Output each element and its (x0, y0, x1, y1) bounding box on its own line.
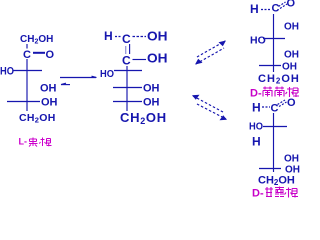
svg-text:HO: HO (250, 35, 266, 47)
svg-text:HO: HO (0, 66, 14, 78)
svg-text:L-: L- (19, 137, 28, 147)
svg-text:C: C (272, 3, 280, 15)
svg-text:C: C (122, 54, 131, 68)
svg-text:OH: OH (284, 22, 299, 33)
svg-text:C: C (271, 103, 279, 115)
svg-text:OH: OH (282, 62, 297, 73)
svg-text:H: H (252, 135, 261, 149)
svg-text:O: O (46, 49, 55, 61)
svg-text:OH: OH (147, 52, 168, 66)
svg-text:OH: OH (143, 83, 160, 95)
svg-text:OH: OH (143, 97, 160, 109)
svg-text:H: H (104, 29, 113, 43)
svg-text:HO: HO (249, 121, 263, 133)
svg-text:OH: OH (40, 83, 57, 95)
svg-text:O: O (287, 97, 296, 109)
svg-text:OH: OH (41, 97, 58, 109)
svg-text:H: H (250, 2, 259, 16)
svg-text:C: C (122, 32, 131, 46)
svg-text:OH: OH (147, 30, 168, 44)
svg-text:OH: OH (284, 50, 299, 61)
svg-text:D-: D- (252, 188, 264, 200)
svg-text:OH: OH (284, 154, 299, 165)
svg-text:HO: HO (100, 68, 114, 80)
svg-text:C: C (23, 49, 31, 61)
svg-text:O: O (287, 0, 296, 10)
svg-text:D-: D- (250, 88, 262, 100)
svg-text:H: H (252, 101, 261, 115)
